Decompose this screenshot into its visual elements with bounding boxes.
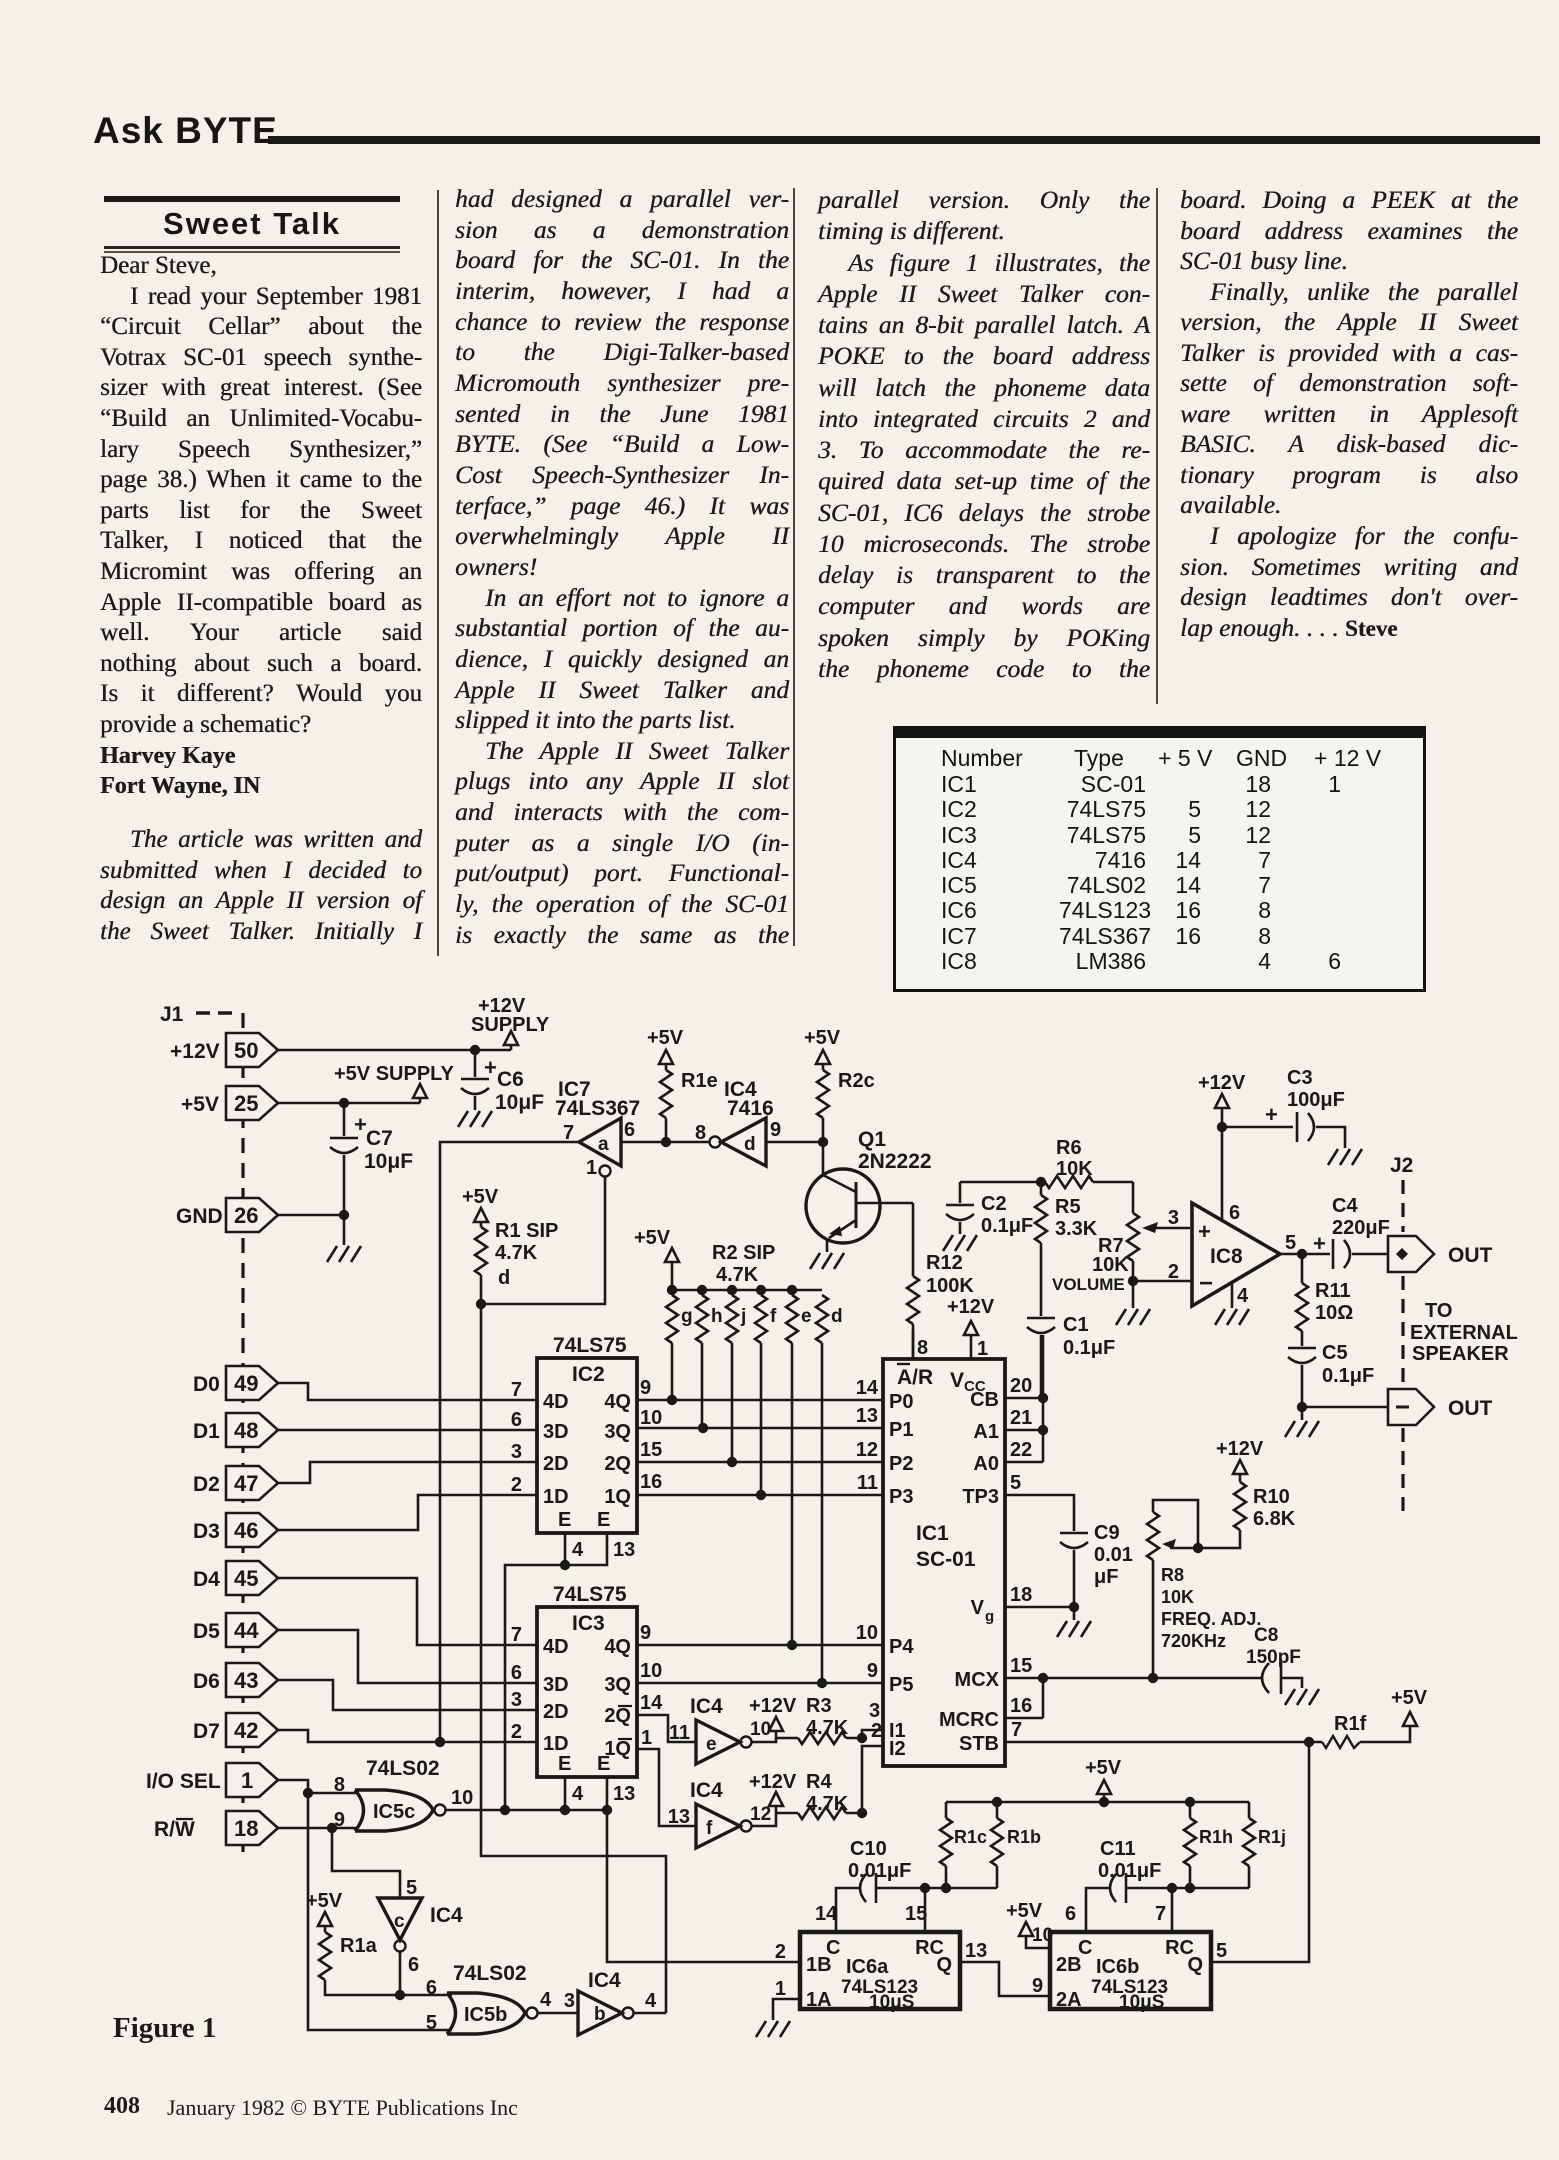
svg-text:720KHz: 720KHz xyxy=(1161,1631,1226,1651)
svg-text:10: 10 xyxy=(1032,1925,1053,1946)
svg-text:6: 6 xyxy=(1229,1202,1240,1224)
svg-text:1: 1 xyxy=(775,1978,786,2000)
svg-text:6: 6 xyxy=(426,1977,437,1999)
svg-text:C11: C11 xyxy=(1100,1838,1136,1860)
svg-text:50: 50 xyxy=(234,1038,258,1063)
svg-text:4: 4 xyxy=(540,1989,552,2011)
svg-text:10K: 10K xyxy=(1092,1254,1129,1276)
svg-text:15: 15 xyxy=(640,1439,662,1461)
resistor R4 4.7K with +12V xyxy=(749,1720,883,1826)
svg-text:d: d xyxy=(498,1267,510,1289)
svg-text:P2: P2 xyxy=(889,1453,913,1475)
svg-text:IC1: IC1 xyxy=(916,1522,949,1545)
svg-text:3.3K: 3.3K xyxy=(1055,1218,1098,1240)
svg-text:+5V: +5V xyxy=(1391,1687,1428,1709)
wire D2 to IC2 2D xyxy=(278,1462,537,1483)
svg-text:10μF: 10μF xyxy=(495,1091,544,1114)
+12V supply to IC8 pin 6 xyxy=(1198,1072,1246,1221)
svg-text:C8: C8 xyxy=(1254,1625,1278,1646)
resistor R1c xyxy=(940,1802,987,1888)
svg-text:10: 10 xyxy=(856,1622,878,1644)
svg-text:7: 7 xyxy=(511,1379,522,1401)
svg-text:45: 45 xyxy=(234,1566,258,1591)
svg-text:10μS: 10μS xyxy=(869,1992,914,2013)
svg-text:9: 9 xyxy=(867,1660,878,1682)
column 3 xyxy=(818,184,1150,684)
ground under R7 xyxy=(1116,1309,1150,1325)
ground under C5 node xyxy=(1285,1421,1319,1437)
wire IC6b Q to STB net xyxy=(1211,1742,1309,1962)
wire IC2 1Q to IC1 P3 xyxy=(637,1472,883,1500)
svg-text:100μF: 100μF xyxy=(1287,1089,1345,1111)
wire D3 to IC2 1D xyxy=(278,1495,537,1530)
connector pin 50 (+12V) xyxy=(170,1033,278,1067)
svg-text:5: 5 xyxy=(426,2012,437,2034)
IC1 SC-01 box xyxy=(883,1359,1005,1766)
svg-text:C10: C10 xyxy=(850,1838,887,1860)
svg-text:3: 3 xyxy=(511,1441,522,1463)
svg-text:3Q: 3Q xyxy=(604,1421,631,1443)
svg-text:3: 3 xyxy=(564,1990,575,2012)
svg-text:IC4: IC4 xyxy=(690,1779,723,1802)
wire D1 to IC2 3D xyxy=(278,1429,537,1432)
svg-text:C: C xyxy=(1078,1937,1092,1959)
connector pin 46 (D3) xyxy=(193,1513,278,1547)
svg-text:R/W: R/W xyxy=(154,1818,195,1841)
svg-text:44: 44 xyxy=(234,1618,259,1643)
wire IC3 1Q to IC4f input xyxy=(637,1749,696,1826)
svg-text:STB: STB xyxy=(959,1733,999,1755)
svg-text:6: 6 xyxy=(624,1119,635,1141)
resistor R6 10K xyxy=(1041,1137,1133,1188)
wire IC2 4Q to IC1 P0 xyxy=(637,1377,883,1405)
wire GND pin 26 xyxy=(278,1210,349,1245)
wire I/O SEL to IC5c pin 8 and down to IC5b pin 5 xyxy=(278,1780,452,2030)
svg-text:0.1μF: 0.1μF xyxy=(1322,1365,1374,1387)
footer xyxy=(104,2093,140,2120)
svg-text:7: 7 xyxy=(1155,1903,1166,1925)
svg-text:d: d xyxy=(831,1306,843,1327)
column 4 xyxy=(1180,185,1518,644)
svg-text:g: g xyxy=(681,1306,693,1327)
svg-text:6: 6 xyxy=(511,1409,522,1431)
svg-text:74LS02: 74LS02 xyxy=(453,1962,527,1985)
svg-text:J2: J2 xyxy=(1390,1154,1413,1177)
svg-text:P4: P4 xyxy=(889,1636,914,1658)
svg-text:J1: J1 xyxy=(160,1003,184,1026)
svg-text:VOLUME: VOLUME xyxy=(1052,1275,1125,1294)
svg-text:I2: I2 xyxy=(889,1738,906,1760)
svg-text:MCRC: MCRC xyxy=(939,1709,999,1731)
svg-text:c: c xyxy=(394,1911,405,1932)
svg-text:b: b xyxy=(594,2004,606,2025)
svg-text:+: + xyxy=(1265,1102,1278,1127)
connector pin 26 (GND) xyxy=(176,1198,278,1232)
svg-text:R1 SIP: R1 SIP xyxy=(495,1220,558,1242)
resistor R2h xyxy=(696,1295,723,1428)
svg-text:IC4: IC4 xyxy=(430,1904,463,1927)
svg-text:26: 26 xyxy=(234,1203,258,1228)
svg-text:A/R: A/R xyxy=(897,1366,933,1389)
svg-text:21: 21 xyxy=(1010,1407,1032,1429)
svg-text:C5: C5 xyxy=(1322,1342,1348,1364)
svg-text:10K: 10K xyxy=(1056,1158,1093,1180)
+5V SUPPLY arrow xyxy=(334,1063,455,1103)
svg-text:IC2: IC2 xyxy=(572,1363,605,1386)
svg-text:10μS: 10μS xyxy=(1119,1992,1164,2013)
IC power table xyxy=(893,726,1426,992)
svg-text:74LS02: 74LS02 xyxy=(366,1757,440,1780)
svg-text:47: 47 xyxy=(234,1471,258,1496)
svg-text:R5: R5 xyxy=(1055,1196,1081,1218)
svg-text:R1f: R1f xyxy=(1334,1713,1367,1735)
inverter IC4c (points down) xyxy=(378,1877,463,2000)
TO EXTERNAL SPEAKER label xyxy=(1410,1300,1518,1365)
svg-text:E: E xyxy=(558,1509,571,1531)
svg-text:0.01: 0.01 xyxy=(1094,1544,1133,1566)
wire IC3 2Q to IC4e input xyxy=(637,1715,696,1742)
svg-text:FREQ. ADJ.: FREQ. ADJ. xyxy=(1161,1609,1261,1629)
wire IC3 3Q to IC1 P5 xyxy=(637,1660,883,1688)
svg-text:16: 16 xyxy=(1010,1695,1032,1717)
svg-text:R2c: R2c xyxy=(838,1070,875,1092)
svg-text:220μF: 220μF xyxy=(1332,1217,1390,1239)
connector pin 25 (+5V) xyxy=(181,1086,278,1120)
+5V rail over IC6 xyxy=(946,1757,1249,1807)
IC8 pin 4 ground xyxy=(1215,1283,1249,1325)
svg-text:20: 20 xyxy=(1010,1375,1032,1397)
svg-text:13: 13 xyxy=(613,1539,635,1561)
svg-text:MCX: MCX xyxy=(955,1669,1000,1691)
svg-text:13: 13 xyxy=(856,1405,878,1427)
inverter IC4b xyxy=(538,1969,666,2035)
svg-text:2: 2 xyxy=(511,1721,522,1743)
svg-text:2: 2 xyxy=(511,1474,522,1496)
svg-text:4.7K: 4.7K xyxy=(806,1717,849,1739)
svg-text:46: 46 xyxy=(234,1518,258,1543)
svg-text:+5V: +5V xyxy=(462,1186,499,1208)
svg-text:+12V: +12V xyxy=(947,1296,995,1318)
svg-text:13: 13 xyxy=(613,1783,635,1805)
svg-text:+12V: +12V xyxy=(170,1040,220,1063)
svg-text:+5V: +5V xyxy=(306,1890,343,1912)
svg-text:10: 10 xyxy=(640,1660,662,1682)
svg-text:SPEAKER: SPEAKER xyxy=(1412,1343,1509,1365)
svg-text:12: 12 xyxy=(856,1439,878,1461)
svg-text:100K: 100K xyxy=(926,1275,974,1297)
svg-text:P0: P0 xyxy=(889,1391,913,1413)
svg-text:10Ω: 10Ω xyxy=(1315,1302,1353,1324)
connector pin 42 (D7) xyxy=(193,1713,278,1747)
connector pin 48 (D1) xyxy=(193,1413,278,1447)
wire IC5c output E-net xyxy=(446,1805,612,1815)
svg-text:2D: 2D xyxy=(543,1453,569,1475)
wire D4 to IC3 4D xyxy=(278,1578,537,1645)
svg-text:+5V: +5V xyxy=(647,1027,684,1049)
capacitor C6 xyxy=(461,1050,544,1114)
column 2 xyxy=(455,184,789,950)
Sweet Talk headline block xyxy=(104,196,400,202)
svg-text:+12V: +12V xyxy=(1198,1072,1246,1094)
+5V to IC6b 2B xyxy=(1006,1900,1050,1948)
svg-text:150pF: 150pF xyxy=(1246,1647,1301,1668)
J1 dashed bus line xyxy=(241,1013,244,1852)
svg-text:14: 14 xyxy=(856,1377,879,1399)
svg-text:0.01μF: 0.01μF xyxy=(848,1860,911,1882)
svg-text:14: 14 xyxy=(640,1692,663,1714)
svg-text:D2: D2 xyxy=(193,1473,220,1496)
svg-text:11: 11 xyxy=(669,1722,690,1744)
svg-text:74LS75: 74LS75 xyxy=(553,1334,627,1357)
svg-text:+: + xyxy=(484,1055,497,1080)
svg-text:E: E xyxy=(558,1753,571,1775)
wire D7 to IC3 1D xyxy=(278,1730,537,1747)
svg-text:1: 1 xyxy=(977,1338,988,1360)
svg-text:V: V xyxy=(971,1597,985,1619)
svg-text:4: 4 xyxy=(645,1990,657,2012)
monostable IC6b 74LS123 xyxy=(1032,1903,1227,2013)
svg-text:2Q: 2Q xyxy=(604,1453,631,1475)
wire IC6a Q to IC6b 2A xyxy=(960,1962,1050,1996)
svg-text:1: 1 xyxy=(586,1157,597,1179)
capacitor C8 150pF xyxy=(1246,1625,1302,1694)
NOR gate IC5b 74LS02 xyxy=(426,1962,552,2034)
svg-text:R2 SIP: R2 SIP xyxy=(712,1242,775,1264)
svg-text:IC4: IC4 xyxy=(588,1969,621,1992)
ground under C6 xyxy=(458,1111,492,1127)
IC1 CB/A1/A0 tie line to C1 xyxy=(1005,1335,1048,1462)
svg-text:R1a: R1a xyxy=(340,1935,378,1957)
svg-text:4D: 4D xyxy=(543,1391,569,1413)
column 1 xyxy=(100,251,422,802)
svg-text:+5V SUPPLY: +5V SUPPLY xyxy=(334,1063,455,1085)
wire IC4d input from Q1 base net xyxy=(766,1137,828,1147)
ground under Vg xyxy=(1057,1621,1091,1637)
svg-text:Q: Q xyxy=(1187,1954,1203,1976)
svg-text:9: 9 xyxy=(770,1119,781,1141)
ground under C3 xyxy=(1328,1149,1362,1165)
svg-text:C: C xyxy=(826,1937,840,1959)
transistor Q1 2N2222 xyxy=(806,1128,932,1252)
svg-text:a: a xyxy=(598,1134,609,1155)
potentiometer R7 10K VOLUME xyxy=(1052,1182,1192,1308)
svg-text:+5V: +5V xyxy=(804,1027,841,1049)
resistor R10 6.8K with +12V xyxy=(1193,1438,1296,1553)
svg-text:d: d xyxy=(744,1134,756,1155)
resistor R3 4.7K with +12V xyxy=(749,1695,883,1744)
resistor R2f xyxy=(755,1295,777,1495)
svg-text:C1: C1 xyxy=(1063,1314,1089,1336)
svg-text:1Q: 1Q xyxy=(604,1486,631,1508)
wire +5V rail xyxy=(278,1098,420,1108)
svg-text:2D: 2D xyxy=(543,1701,569,1723)
wire IC8 output node xyxy=(1280,1249,1330,1259)
svg-text:R1e: R1e xyxy=(681,1070,718,1092)
resistor R2c xyxy=(804,1027,875,1142)
svg-text:3D: 3D xyxy=(543,1421,569,1443)
column rules xyxy=(437,190,439,956)
svg-text:10μF: 10μF xyxy=(364,1150,413,1173)
svg-text:OUT: OUT xyxy=(1448,1397,1493,1420)
inverter IC4f xyxy=(668,1779,771,1848)
connector pin 49 (D0) xyxy=(193,1366,278,1400)
svg-text:1: 1 xyxy=(641,1727,652,1749)
+12V SUPPLY arrow xyxy=(471,995,550,1050)
connector J1 label xyxy=(160,1003,232,1026)
svg-text:74LS367: 74LS367 xyxy=(555,1097,640,1120)
IC1 Vg stub to ground xyxy=(1005,1584,1079,1620)
svg-text:5: 5 xyxy=(1216,1940,1227,1962)
svg-text:+12V: +12V xyxy=(749,1695,797,1717)
svg-text:TO: TO xyxy=(1425,1300,1452,1322)
svg-text:IC8: IC8 xyxy=(1210,1245,1243,1268)
svg-text:R11: R11 xyxy=(1315,1280,1351,1302)
svg-text:10: 10 xyxy=(750,1719,771,1740)
svg-text:TP3: TP3 xyxy=(962,1486,999,1508)
svg-text:D5: D5 xyxy=(193,1620,220,1643)
svg-text:P3: P3 xyxy=(889,1486,913,1508)
svg-text:IC5b: IC5b xyxy=(464,2004,507,2026)
svg-text:2Q: 2Q xyxy=(604,1705,631,1727)
svg-text:R1j: R1j xyxy=(1258,1827,1286,1847)
column 1 italic para xyxy=(100,825,422,947)
svg-text:Q1: Q1 xyxy=(858,1128,886,1151)
svg-text:42: 42 xyxy=(234,1718,258,1743)
resistor R1 SIP d (R1d) xyxy=(462,1186,558,1309)
svg-text:1D: 1D xyxy=(543,1733,569,1755)
svg-text:3: 3 xyxy=(511,1689,522,1711)
svg-text:IC6a: IC6a xyxy=(846,1956,889,1978)
connector pin 18 (R/W) xyxy=(154,1811,278,1845)
svg-text:μF: μF xyxy=(1094,1566,1118,1588)
svg-text:7: 7 xyxy=(511,1624,522,1646)
svg-text:h: h xyxy=(711,1306,723,1327)
svg-text:3: 3 xyxy=(1168,1207,1179,1229)
svg-text:43: 43 xyxy=(234,1668,258,1693)
svg-text:4.7K: 4.7K xyxy=(716,1264,759,1286)
wire D0 to IC2 4D xyxy=(278,1383,537,1400)
J2 label and dashed line xyxy=(1390,1154,1413,1520)
svg-text:1A: 1A xyxy=(806,1989,832,2011)
svg-text:4D: 4D xyxy=(543,1636,569,1658)
svg-text:18: 18 xyxy=(234,1816,258,1841)
svg-text:6: 6 xyxy=(408,1954,419,1976)
svg-text:8: 8 xyxy=(917,1337,928,1359)
svg-text:C3: C3 xyxy=(1287,1067,1313,1089)
svg-text:14: 14 xyxy=(815,1903,838,1925)
wire IC7a output to IC4d xyxy=(621,1137,709,1147)
connector pin 47 (D2) xyxy=(193,1466,278,1500)
capacitor C9 0.01uF xyxy=(1060,1522,1133,1607)
svg-text:SUPPLY: SUPPLY xyxy=(471,1014,550,1036)
svg-text:C4: C4 xyxy=(1332,1195,1358,1217)
capacitor C3 100uF xyxy=(1222,1067,1345,1148)
IC6a 1A ground xyxy=(756,1999,800,2037)
svg-text:R1b: R1b xyxy=(1007,1827,1041,1847)
wire D5 to IC3 3D xyxy=(278,1630,537,1683)
svg-text:16: 16 xyxy=(640,1471,662,1493)
svg-text:D0: D0 xyxy=(193,1373,220,1396)
svg-text:10K: 10K xyxy=(1161,1587,1194,1607)
monostable IC6a 74LS123 xyxy=(775,1903,987,2013)
svg-text:P1: P1 xyxy=(889,1419,913,1441)
svg-text:10: 10 xyxy=(451,1787,473,1809)
resistor R2d xyxy=(816,1295,843,1683)
inverter IC4d 7416 xyxy=(695,1078,781,1166)
svg-text:R10: R10 xyxy=(1253,1486,1290,1508)
buffer IC7a 74LS367 xyxy=(555,1078,640,1179)
svg-text:4: 4 xyxy=(1237,1285,1249,1307)
svg-text:2A: 2A xyxy=(1056,1989,1082,2011)
IC3 enable stubs xyxy=(565,1777,635,1810)
resistor R2g xyxy=(666,1295,693,1400)
svg-text:+5V: +5V xyxy=(181,1093,219,1116)
svg-text:+5V: +5V xyxy=(634,1227,671,1249)
svg-text:18: 18 xyxy=(1010,1584,1032,1606)
svg-text:6: 6 xyxy=(511,1662,522,1684)
svg-text:1: 1 xyxy=(241,1768,253,1793)
svg-text:9: 9 xyxy=(640,1377,651,1399)
resistor R2j xyxy=(726,1295,746,1462)
IC1 pin 1 VCC +12V arrow xyxy=(947,1296,995,1360)
wire R/W to IC5c pin 9 and IC4c input xyxy=(278,1823,400,1898)
resistor R5 3.3K xyxy=(1035,1182,1098,1316)
svg-text:R1c: R1c xyxy=(954,1827,987,1847)
svg-text:6.8K: 6.8K xyxy=(1253,1508,1296,1530)
resistor R1e xyxy=(647,1027,718,1142)
NOR gate IC5c 74LS02 xyxy=(334,1757,473,1831)
svg-text:48: 48 xyxy=(234,1418,258,1443)
svg-text:9: 9 xyxy=(1032,1975,1043,1997)
svg-text:Q: Q xyxy=(936,1954,952,1976)
svg-text:D6: D6 xyxy=(193,1670,220,1693)
wire IC7a input to D7 net xyxy=(440,1142,579,1742)
svg-text:6: 6 xyxy=(1065,1903,1076,1925)
svg-text:SC-01: SC-01 xyxy=(916,1548,976,1571)
svg-text:C2: C2 xyxy=(981,1193,1007,1215)
connector pin 45 (D4) xyxy=(193,1561,278,1595)
IC1 pin 8 stub (A/R) xyxy=(913,1330,928,1359)
connector J2 - OUT xyxy=(1388,1389,1493,1425)
svg-text:1D: 1D xyxy=(543,1486,569,1508)
svg-text:74LS75: 74LS75 xyxy=(553,1583,627,1606)
wire Q1 collector node to C2/R6 xyxy=(960,1177,1046,1187)
wire R1d net down to IC4b output net xyxy=(481,1304,666,2013)
svg-text:4Q: 4Q xyxy=(604,1636,631,1658)
svg-text:4.7K: 4.7K xyxy=(495,1242,538,1264)
svg-text:D3: D3 xyxy=(193,1520,220,1543)
svg-text:2: 2 xyxy=(871,1720,882,1742)
svg-text:f: f xyxy=(770,1306,777,1327)
svg-text:e: e xyxy=(801,1306,812,1327)
resistor R1b xyxy=(991,1802,1041,1888)
svg-text:15: 15 xyxy=(1010,1655,1032,1677)
resistor R1a with +5V xyxy=(306,1890,452,1995)
svg-text:5: 5 xyxy=(1010,1472,1021,1494)
ground under Q1 emitter xyxy=(810,1253,844,1269)
svg-text:j: j xyxy=(740,1306,746,1327)
svg-text:IC3: IC3 xyxy=(572,1612,605,1635)
svg-text:R8: R8 xyxy=(1161,1565,1184,1585)
svg-text:f: f xyxy=(706,1818,713,1839)
latch IC2 74LS75 xyxy=(511,1334,662,1533)
svg-text:4: 4 xyxy=(572,1783,584,1805)
potentiometer R8 10K FREQ ADJ xyxy=(1147,1500,1261,1678)
connector pin 1 (I/O SEL) xyxy=(146,1763,278,1797)
connector pin 44 (D5) xyxy=(193,1613,278,1647)
resistor R11 10ohm xyxy=(1296,1254,1353,1346)
resistor R12 100K xyxy=(907,1203,974,1359)
